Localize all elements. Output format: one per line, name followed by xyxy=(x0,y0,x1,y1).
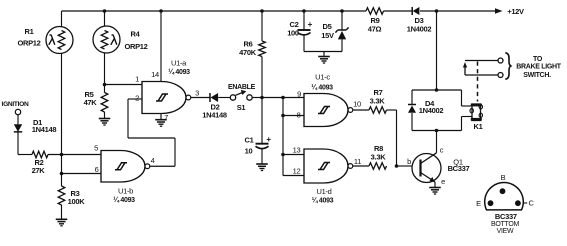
svg-text:TO: TO xyxy=(533,56,543,63)
wire C2 to bottom rail xyxy=(303,35,305,52)
wire K1 mechanical link dashed xyxy=(477,62,479,102)
svg-text:9: 9 xyxy=(297,90,301,99)
svg-text:10: 10 xyxy=(245,147,253,156)
wire K1 bottom stub xyxy=(462,116,473,118)
svg-text:R4: R4 xyxy=(131,30,141,39)
svg-text:¼ 4093: ¼ 4093 xyxy=(311,84,333,92)
photocell R4 ORP12 xyxy=(93,26,120,53)
wire D2 to S1 xyxy=(218,97,230,99)
node TO BRAKE LIGHT SWITCH xyxy=(505,53,511,79)
wire input tie line vertical xyxy=(282,98,284,176)
junction top rail / U1-a pin 14 xyxy=(159,9,163,13)
svg-text:100: 100 xyxy=(287,29,299,38)
svg-text:2: 2 xyxy=(135,94,139,103)
wire U1-b pin4 output feedback to U1-a pin 2 xyxy=(150,165,175,167)
svg-text:¼ 4093: ¼ 4093 xyxy=(113,196,135,204)
junction tie / pin 8 xyxy=(281,114,285,118)
svg-text:BOTTOM: BOTTOM xyxy=(491,221,519,228)
junction input tie line top xyxy=(281,96,285,100)
resistor R3 100K xyxy=(58,186,65,205)
svg-text:13: 13 xyxy=(293,145,301,154)
wire C1 to ground xyxy=(261,149,263,165)
svg-text:ENABLE: ENABLE xyxy=(228,84,256,91)
wire to U1-c pin 8 xyxy=(283,115,304,117)
wire C2 from rail xyxy=(303,11,305,30)
svg-text:c: c xyxy=(440,146,444,155)
wire R4 branch vertical xyxy=(104,11,106,31)
ground C2/D5 xyxy=(323,52,325,57)
wire relay contact fixed xyxy=(465,60,498,62)
resistor R9 47ohm xyxy=(366,8,384,15)
wire R7 to base node xyxy=(387,109,397,111)
svg-text:15V: 15V xyxy=(321,31,334,40)
svg-text:470K: 470K xyxy=(239,48,257,57)
svg-text:47Ω: 47Ω xyxy=(368,25,382,34)
wire R3 to ground xyxy=(61,205,63,219)
junction top rail / R4 xyxy=(103,9,107,13)
junction loop top xyxy=(435,88,439,92)
svg-text:3: 3 xyxy=(195,89,199,98)
junction top rail / R6 xyxy=(260,9,264,13)
wire R1 branch vertical xyxy=(61,11,63,31)
svg-text:6: 6 xyxy=(95,165,99,174)
svg-text:4: 4 xyxy=(151,156,155,165)
svg-text:S1: S1 xyxy=(237,103,246,112)
op U1-b NAND gate 1/4 4093 xyxy=(101,151,145,183)
ground R5 xyxy=(99,118,111,120)
svg-text:C1: C1 xyxy=(245,136,254,145)
wire U1-a pin 3 output to D2 xyxy=(191,97,210,99)
svg-text:10: 10 xyxy=(353,100,361,109)
wire U1-c pin 10 output xyxy=(353,109,369,111)
wire K1 top stub xyxy=(461,90,463,106)
op U1-d NAND gate 1/4 4093 xyxy=(304,149,348,183)
svg-text:C: C xyxy=(528,198,534,207)
svg-text:3.3K: 3.3K xyxy=(370,97,386,106)
wire to U1-d pin 13 xyxy=(283,154,304,156)
svg-text:BC337: BC337 xyxy=(495,212,517,221)
resistor R6 470K xyxy=(259,41,266,56)
svg-text:ORP12: ORP12 xyxy=(124,42,147,51)
svg-text:b: b xyxy=(407,157,411,166)
+12V arrow and label xyxy=(495,8,503,14)
svg-text:K1: K1 xyxy=(474,122,483,131)
svg-text:¼ 4093: ¼ 4093 xyxy=(312,197,334,205)
wire to U1-d pin 12 xyxy=(283,175,304,177)
svg-text:100K: 100K xyxy=(68,197,86,206)
wire ignition to D1 xyxy=(17,115,19,125)
zener D5 15V xyxy=(338,29,346,31)
ground Q1 emitter xyxy=(429,187,441,189)
wire D4/K1 loop bottom xyxy=(412,130,462,132)
junction tie / pin 13 xyxy=(281,153,285,157)
ground C1 xyxy=(256,163,268,165)
resistor R7 3.3K xyxy=(369,107,387,114)
wire C2/D5 bottom link xyxy=(304,51,342,53)
wire D4/K1 loop top xyxy=(412,89,462,91)
wire pin 6 of U1-b xyxy=(62,173,102,175)
junction R3 top / pin 6 xyxy=(60,172,64,176)
junction top rail / relay branch xyxy=(435,9,439,13)
junction loop bottom xyxy=(435,129,439,133)
ground U1-a pin 7 xyxy=(155,119,167,121)
svg-text:ORP12: ORP12 xyxy=(17,39,40,48)
resistor R5 47K xyxy=(101,93,108,112)
wire base node to Q1 base xyxy=(397,165,413,167)
wire R5 to ground xyxy=(104,112,106,119)
svg-text:VIEW: VIEW xyxy=(497,228,514,235)
svg-text:8: 8 xyxy=(297,111,301,120)
wire Q1 emitter to ground xyxy=(434,182,436,188)
svg-text:5: 5 xyxy=(94,144,98,153)
svg-text:1N4148: 1N4148 xyxy=(202,111,227,120)
wire RC node to C1 xyxy=(261,98,263,144)
junction node A (R1/R2/R3/pin5) xyxy=(60,153,64,157)
svg-text:U1-c: U1-c xyxy=(315,73,330,82)
ground R3 xyxy=(56,218,68,220)
svg-text:R1: R1 xyxy=(25,27,34,36)
diode D1 1N4148 xyxy=(14,124,22,132)
svg-text:11: 11 xyxy=(354,157,361,166)
op U1-a NAND gate 1/4 4093 xyxy=(142,82,186,114)
wire R2 to node A / U1-b pin 5 xyxy=(48,154,101,156)
diode D4 1N4002 xyxy=(408,104,416,106)
capacitor C2 100 xyxy=(298,29,311,31)
svg-text:B: B xyxy=(501,173,506,182)
diode D3 1N4002 xyxy=(411,7,413,15)
wire R6 from +12V rail xyxy=(261,11,263,41)
svg-text:BRAKE LIGHT: BRAKE LIGHT xyxy=(516,64,562,71)
photocell R1 ORP12 xyxy=(46,27,73,54)
relay coil K1 xyxy=(472,104,481,121)
svg-text:IGNITION: IGNITION xyxy=(2,101,29,108)
svg-text:SWITCH.: SWITCH. xyxy=(523,72,551,79)
svg-text:¼ 4093: ¼ 4093 xyxy=(168,68,190,76)
svg-text:+12V: +12V xyxy=(507,7,524,16)
svg-text:1N4002: 1N4002 xyxy=(419,106,444,115)
svg-text:e: e xyxy=(441,177,445,186)
wire RC node to U1-c pin 9 xyxy=(262,97,304,99)
svg-text:BC337: BC337 xyxy=(448,164,470,173)
wire D4 leads xyxy=(411,90,413,104)
svg-text:E: E xyxy=(476,199,481,208)
wire U1-a pin 7 to ground xyxy=(160,114,162,120)
wire relay branch from +12V rail xyxy=(436,11,438,90)
svg-text:1: 1 xyxy=(135,75,139,84)
svg-text:U1-b: U1-b xyxy=(118,187,133,196)
svg-text:1N4148: 1N4148 xyxy=(32,125,57,134)
svg-text:27K: 27K xyxy=(32,166,46,175)
svg-text:14: 14 xyxy=(151,70,159,79)
svg-text:+: + xyxy=(308,20,313,29)
wire U1-a pin 14 to +12V rail xyxy=(160,11,162,82)
svg-text:7: 7 xyxy=(164,113,168,122)
diagram BC337 bottom view package xyxy=(485,182,524,209)
wire Q1 collector to D4/relay loop xyxy=(436,131,438,153)
svg-text:D5: D5 xyxy=(323,22,332,31)
wire node A down to R3 xyxy=(61,155,63,187)
junction top rail / C2 xyxy=(302,9,306,13)
resistor R8 3.3K xyxy=(369,163,387,170)
diode D2 1N4148 xyxy=(209,93,211,102)
wire +12V top rail xyxy=(62,10,367,12)
junction base node R7/R8 xyxy=(395,164,399,168)
wire U1-d pin 11 output xyxy=(353,165,369,167)
junction R4/R5/pin1 node xyxy=(103,83,107,87)
capacitor C1 10 xyxy=(256,143,269,145)
wire relay contact armature with arrow xyxy=(465,74,498,76)
wire S1 to RC node xyxy=(252,97,262,99)
svg-text:U1-d: U1-d xyxy=(316,187,331,196)
wire D5 from rail xyxy=(341,11,343,30)
wire R6 to RC node xyxy=(261,57,263,98)
resistor R2 27K xyxy=(32,151,48,158)
svg-text:U1-a: U1-a xyxy=(171,59,187,68)
svg-text:+: + xyxy=(266,135,271,144)
switch S1 ENABLE xyxy=(230,95,235,100)
wire U1-a pin 1 from R4/R5 node xyxy=(105,84,143,86)
op U1-c NAND gate 1/4 4093 xyxy=(304,94,348,127)
transistor Q1 BC337 xyxy=(412,154,441,183)
svg-text:47K: 47K xyxy=(84,98,98,107)
svg-text:12: 12 xyxy=(293,166,301,175)
svg-text:3.3K: 3.3K xyxy=(371,153,387,162)
junction top rail / D5 xyxy=(340,9,344,13)
wire D1 to R2 xyxy=(17,132,19,154)
junction RC node (R6/C1/S1) xyxy=(260,96,264,100)
svg-text:1N4002: 1N4002 xyxy=(407,25,432,34)
